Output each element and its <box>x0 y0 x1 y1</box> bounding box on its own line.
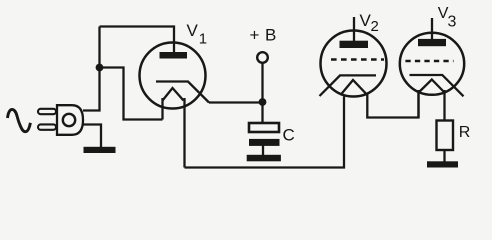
wire bottom filament run V1 to V2 <box>185 97 345 168</box>
svg-text:R: R <box>459 124 471 141</box>
node +B junction dot <box>259 98 267 106</box>
plug body <box>57 105 83 135</box>
capacitor C top plate <box>249 123 279 132</box>
plug prong top <box>38 109 56 114</box>
anode plate V2 <box>340 41 369 48</box>
wire V1 filament left leg <box>161 98 163 120</box>
AC source sine symbol <box>8 109 31 131</box>
anode plate V3 <box>418 39 446 46</box>
cathode V2 <box>320 75 377 96</box>
anode plate V1 <box>160 52 188 59</box>
filament V2 <box>341 80 368 95</box>
svg-text:C: C <box>283 126 295 145</box>
tube V3 envelope <box>400 33 464 95</box>
capacitor C bottom plate <box>249 139 280 146</box>
grid (dashed) V3 <box>405 60 453 63</box>
node junction dot <box>96 64 104 72</box>
svg-text:2: 2 <box>371 18 379 35</box>
ground (plug) <box>84 147 116 153</box>
wire +B stem <box>261 63 263 122</box>
wire junction to V1 filament left leg <box>100 68 163 120</box>
wire V3 filament left leg <box>417 90 419 118</box>
wire top horizontal to V1 anode <box>100 27 175 53</box>
plug prong bottom <box>38 124 56 129</box>
filament V3 <box>419 80 445 93</box>
tube V1 envelope <box>140 43 206 109</box>
wire capacitor stem <box>262 145 264 155</box>
svg-text:+: + <box>250 26 260 45</box>
wire V1 cathode to +B node <box>209 101 263 103</box>
svg-text:3: 3 <box>448 14 457 31</box>
wire V1 filament right leg to bottom wire <box>183 98 185 168</box>
svg-text:1: 1 <box>199 30 207 47</box>
wire V3 anode lead stub <box>431 18 433 40</box>
wire plug top to vertical riser <box>83 27 100 111</box>
resistor R <box>437 121 454 151</box>
wire V2 filament right leg to V3 <box>367 93 418 118</box>
wire V2 anode lead stub <box>353 17 355 41</box>
wire V3 filament right leg to R <box>443 90 445 121</box>
ground (resistor) <box>427 161 458 167</box>
svg-text:B: B <box>265 26 276 45</box>
ground (capacitor) <box>247 155 281 162</box>
wire plug bottom to ground <box>83 125 101 148</box>
cathode V1 <box>156 82 209 103</box>
plug screw circle <box>63 114 75 126</box>
cathode V3 <box>410 75 464 96</box>
filament V1 <box>163 88 184 101</box>
svg-text:V: V <box>187 21 199 40</box>
grid (dashed) V2 <box>331 58 384 61</box>
wire R to ground <box>443 150 445 162</box>
tube V2 envelope <box>321 31 387 97</box>
terminal +B <box>257 52 268 63</box>
